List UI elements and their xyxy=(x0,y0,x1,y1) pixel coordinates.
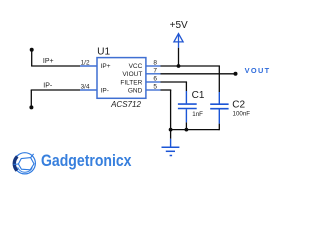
pin VIOUT stub (pin 7) xyxy=(146,73,161,75)
wire ground rail xyxy=(171,129,220,131)
svg-text:1nF: 1nF xyxy=(192,111,203,118)
pin GND stub (pin 5) xyxy=(146,89,161,91)
svg-text:8: 8 xyxy=(153,60,157,67)
wire +5V stem to VCC rail xyxy=(178,48,180,66)
node junction +5V / VCC xyxy=(177,64,181,68)
svg-text:VCC: VCC xyxy=(129,63,143,70)
svg-text:C2: C2 xyxy=(232,100,245,111)
svg-text:IP-: IP- xyxy=(101,87,109,94)
node junction rail / C1 xyxy=(185,128,189,132)
capacitor C2 xyxy=(210,92,228,124)
wire IP- vertical xyxy=(30,90,32,107)
node junction rail / pin5 xyxy=(169,128,173,132)
node IP+ terminal dot xyxy=(30,48,34,52)
wire VIOUT pin7 to VOUT xyxy=(161,73,236,75)
wire IP+ horizontal to pin 1/2 xyxy=(31,65,80,67)
svg-text:FILTER: FILTER xyxy=(120,79,142,86)
pin VCC stub (pin 8) xyxy=(146,65,161,67)
svg-text:VIOUT: VIOUT xyxy=(122,71,142,78)
svg-text:IP-: IP- xyxy=(43,83,53,90)
svg-text:GND: GND xyxy=(128,87,143,94)
svg-text:7: 7 xyxy=(153,67,157,74)
node IP- terminal dot xyxy=(29,105,33,109)
power +5V arrow symbol xyxy=(174,34,183,42)
wire C1 bottom black xyxy=(185,122,187,129)
node VOUT terminal dot xyxy=(234,72,238,76)
svg-text:Gadgetronicx: Gadgetronicx xyxy=(41,152,132,170)
svg-text:6: 6 xyxy=(153,76,157,83)
wire FILTER down to C1 xyxy=(185,82,187,91)
op-amp U1 ACS712 body xyxy=(97,58,146,99)
pin IP- stub (pins 3/4) xyxy=(80,89,97,91)
wire IP- horizontal to pin 3/4 xyxy=(31,89,80,91)
wire IP+ vertical xyxy=(31,50,33,66)
svg-text:5: 5 xyxy=(153,84,157,91)
wire GND pin5 down to rail xyxy=(170,90,172,130)
capacitor C1 xyxy=(178,91,197,122)
svg-text:C1: C1 xyxy=(192,90,205,101)
wire C2 top vertical xyxy=(218,66,220,92)
logo Gadgetronicx icon xyxy=(14,153,36,174)
svg-text:100nF: 100nF xyxy=(233,110,251,117)
wire VCC pin8 to C2 corner xyxy=(161,65,220,67)
wire C2 bottom black xyxy=(218,124,220,131)
svg-text:IP+: IP+ xyxy=(43,58,54,65)
svg-text:ACS712: ACS712 xyxy=(110,100,141,109)
svg-text:+5V: +5V xyxy=(170,20,188,31)
wire FILTER pin6 horizontal xyxy=(161,81,188,83)
pin FILTER stub (pin 6) xyxy=(146,81,161,83)
pin IP+ stub (pins 1/2) xyxy=(80,65,97,67)
svg-text:IP+: IP+ xyxy=(101,63,111,70)
svg-text:U1: U1 xyxy=(97,47,110,58)
ground xyxy=(162,130,180,156)
wire GND pin5 horizontal xyxy=(161,89,172,91)
svg-text:VOUT: VOUT xyxy=(245,66,271,75)
